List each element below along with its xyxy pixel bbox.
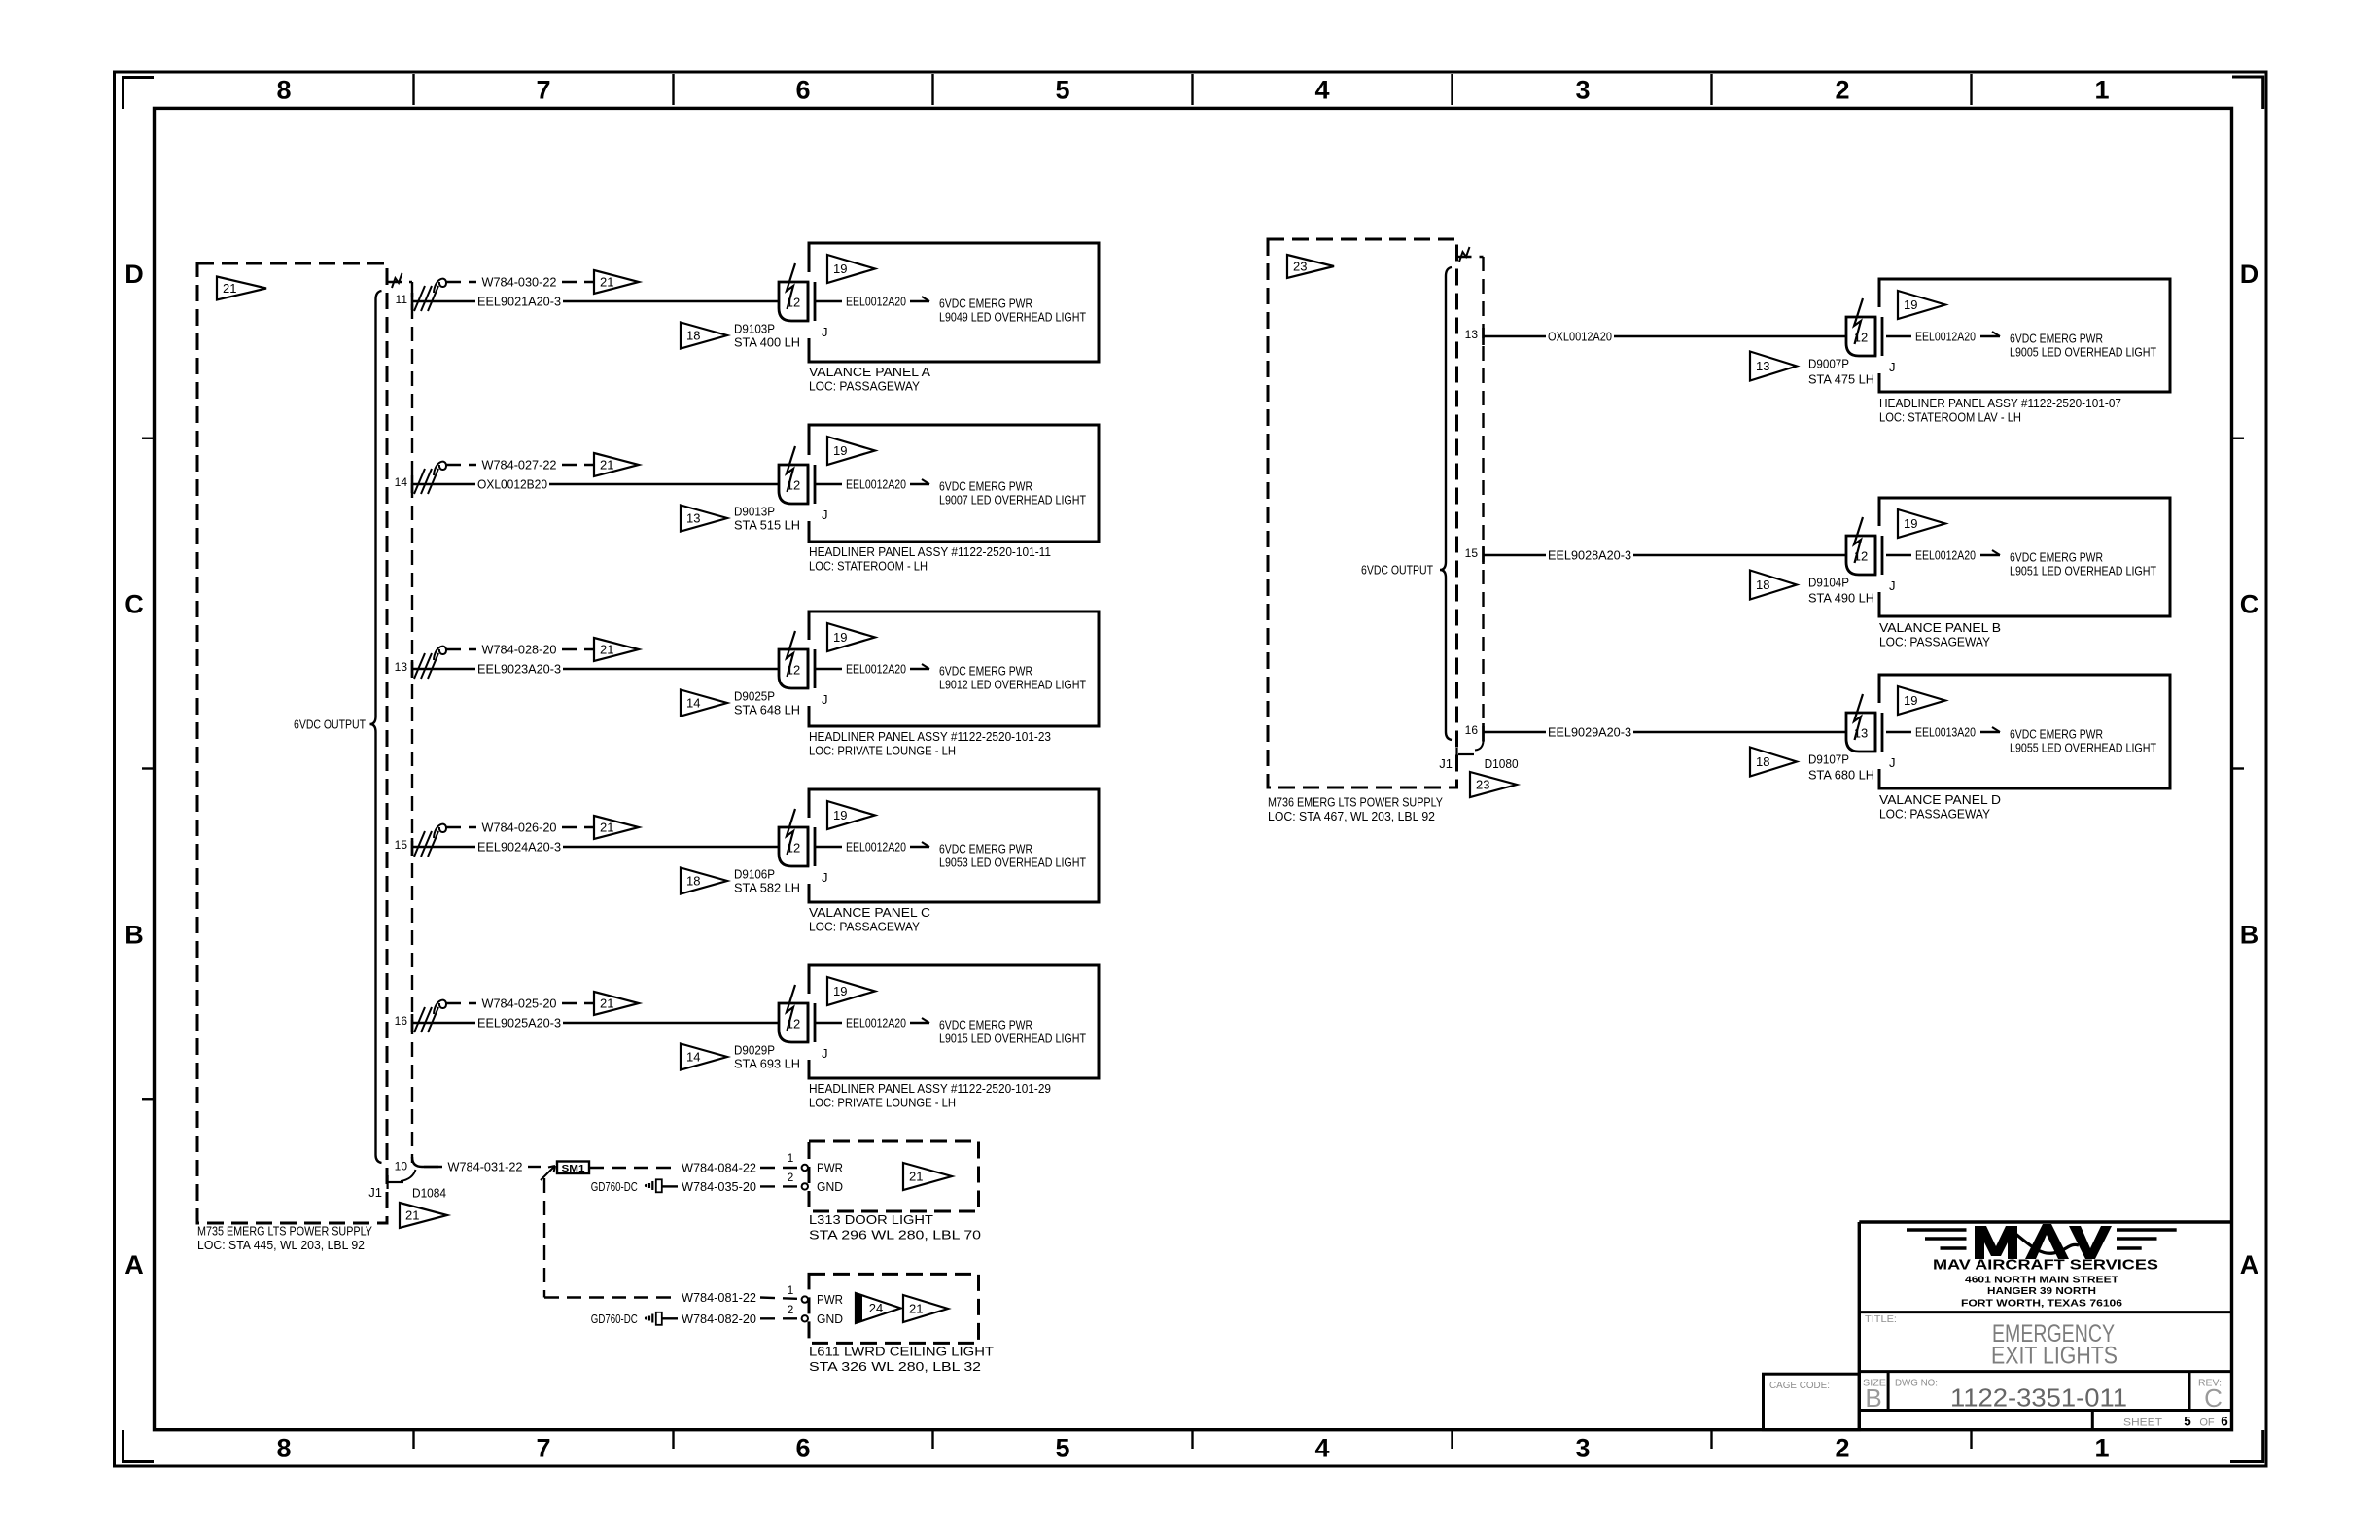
- zone letters left (D C B A): [124, 260, 144, 1279]
- svg-text:6: 6: [795, 1434, 810, 1463]
- svg-text:GD760-DC: GD760-DC: [591, 1312, 638, 1326]
- svg-text:STA 326 WL 280, LBL 32: STA 326 WL 280, LBL 32: [809, 1359, 981, 1374]
- svg-text:J: J: [1889, 755, 1896, 770]
- svg-text:12: 12: [787, 663, 800, 678]
- 6VDC OUTPUT label (M735): [294, 717, 366, 732]
- svg-text:J: J: [1889, 360, 1896, 374]
- net label 6VDC EMERG PWR / L9015: [939, 1018, 1086, 1046]
- svg-text:12: 12: [1854, 331, 1868, 345]
- D1080 label: [1485, 756, 1519, 771]
- connector D9106P (12): [779, 809, 828, 885]
- svg-text:21: 21: [909, 1302, 923, 1316]
- size cell: [1863, 1372, 1888, 1413]
- shield pigtail pin 11: [414, 279, 446, 311]
- svg-text:18: 18: [1756, 577, 1769, 592]
- svg-text:10: 10: [395, 1160, 408, 1173]
- svg-text:LOC: PASSAGEWAY: LOC: PASSAGEWAY: [1879, 635, 1990, 649]
- caption HEADLINER PANEL ASSY #1122-2520-101-23: [809, 729, 1051, 758]
- svg-text:SM1: SM1: [562, 1164, 586, 1174]
- svg-text:LOC: STATEROOM - LH: LOC: STATEROOM - LH: [809, 559, 927, 574]
- wire EEL0012A20 inside L9049: [815, 295, 929, 309]
- drawing title EMERGENCY EXIT LIGHTS: [1991, 1320, 2117, 1370]
- svg-text:J: J: [822, 325, 828, 339]
- svg-text:2: 2: [787, 1171, 794, 1184]
- net label 6VDC EMERG PWR / L9007: [939, 479, 1086, 507]
- svg-text:3: 3: [1575, 1434, 1590, 1463]
- corner tick top-right: [2232, 77, 2263, 109]
- shield drain wire W784-025-20: [446, 997, 594, 1011]
- svg-text:14: 14: [686, 696, 700, 711]
- svg-text:1: 1: [787, 1283, 794, 1297]
- svg-text:J: J: [822, 870, 828, 885]
- reference D9029P STA 693 LH: [734, 1043, 800, 1071]
- reference D9107P STA 680 LH: [1808, 752, 1874, 783]
- light unit box L9053 VALANCE PANEL C: [809, 789, 1099, 902]
- wire W784-031-22 (pin 10): [424, 1160, 541, 1174]
- svg-text:21: 21: [600, 275, 613, 290]
- svg-text:LOC: PASSAGEWAY: LOC: PASSAGEWAY: [809, 379, 920, 394]
- pin bus corner to pin 10 (M735): [412, 1157, 442, 1167]
- net label 6VDC EMERG PWR / L9053: [939, 842, 1086, 870]
- svg-text:EEL9028A20-3: EEL9028A20-3: [1548, 548, 1631, 563]
- connector D9104P (15): [1846, 517, 1896, 593]
- svg-text:23: 23: [1293, 260, 1307, 274]
- output brace (M735): [370, 291, 382, 1163]
- svg-text:W784-027-22: W784-027-22: [482, 458, 557, 472]
- svg-text:B: B: [2240, 920, 2259, 949]
- shield drain wire W784-026-20: [446, 821, 594, 835]
- svg-text:L611 LWRD CEILING LIGHT: L611 LWRD CEILING LIGHT: [809, 1345, 994, 1359]
- L611 pin 2: [787, 1303, 808, 1322]
- light unit box L9049 VALANCE PANEL A: [809, 243, 1099, 362]
- svg-text:L9012 LED OVERHEAD LIGHT: L9012 LED OVERHEAD LIGHT: [939, 678, 1086, 692]
- svg-text:J1: J1: [368, 1185, 382, 1200]
- svg-text:L313 DOOR LIGHT: L313 DOOR LIGHT: [809, 1212, 933, 1227]
- svg-text:D9106P: D9106P: [734, 867, 775, 882]
- flag 21 in L313: [903, 1163, 952, 1190]
- reference D9007P STA 475 LH: [1808, 357, 1874, 387]
- flag 21 on W784-025-20: [594, 992, 639, 1015]
- svg-text:D9104P: D9104P: [1808, 576, 1849, 590]
- svg-text:11: 11: [396, 293, 408, 306]
- ground GD760-DC (L313): [591, 1179, 662, 1194]
- svg-text:D9103P: D9103P: [734, 322, 775, 336]
- svg-text:STA 296 WL 280, LBL 70: STA 296 WL 280, LBL 70: [809, 1228, 981, 1242]
- connector J1 stub with break squiggle (M736): [1457, 247, 1484, 262]
- L611 LWRD CEILING LIGHT dashed box: [809, 1274, 979, 1343]
- svg-text:23: 23: [1476, 778, 1489, 792]
- svg-text:C: C: [124, 590, 144, 619]
- svg-text:W784-081-22: W784-081-22: [682, 1290, 756, 1305]
- svg-text:5: 5: [1055, 76, 1069, 105]
- wire W784-035-20 (gnd to L313): [662, 1179, 801, 1194]
- svg-text:D9025P: D9025P: [734, 689, 775, 704]
- flag 18 D9103P: [681, 323, 727, 349]
- svg-text:13: 13: [686, 511, 700, 526]
- pin 13 tick and number (J1 M735): [395, 660, 412, 678]
- svg-text:21: 21: [909, 1170, 923, 1184]
- svg-text:STA 515 LH: STA 515 LH: [734, 518, 800, 533]
- svg-text:OXL0012B20: OXL0012B20: [477, 477, 547, 492]
- svg-text:CAGE CODE:: CAGE CODE:: [1769, 1380, 1830, 1391]
- svg-text:EEL9023A20-3: EEL9023A20-3: [477, 662, 561, 677]
- wire EEL0012A20 inside L9007: [815, 477, 929, 492]
- shield pigtail pin 16: [414, 1000, 446, 1032]
- shield pigtail pin 13: [414, 647, 446, 679]
- svg-text:12: 12: [787, 841, 800, 856]
- MAV logo speed lines right: [2117, 1230, 2177, 1248]
- flag 21 below J1 (M735): [400, 1203, 447, 1228]
- caption VALANCE PANEL A: [809, 365, 930, 394]
- svg-text:EEL9029A20-3: EEL9029A20-3: [1548, 725, 1631, 740]
- connector J1 stub with break squiggle (M735): [387, 273, 412, 288]
- corner tick top-left: [123, 78, 155, 110]
- svg-text:EEL9025A20-3: EEL9025A20-3: [477, 1016, 561, 1031]
- svg-text:W784-035-20: W784-035-20: [682, 1179, 756, 1194]
- wire EEL0012A20 inside L9053: [815, 840, 929, 855]
- wire EEL9021A20-3 pin 11: [412, 295, 779, 309]
- net label 6VDC EMERG PWR / L9049: [939, 297, 1086, 325]
- shield drain wire W784-028-20: [446, 643, 594, 657]
- svg-text:PWR: PWR: [817, 1161, 843, 1175]
- flag 21 on W784-030-22: [594, 270, 639, 294]
- svg-text:L9005 LED OVERHEAD LIGHT: L9005 LED OVERHEAD LIGHT: [2010, 345, 2156, 360]
- title block outline: [1859, 1222, 2231, 1430]
- branch wire SM1 down to L611: [544, 1178, 678, 1298]
- D1084 backshell arc and label: [401, 1170, 446, 1201]
- L611 pin 1: [787, 1283, 808, 1303]
- svg-text:15: 15: [1465, 546, 1479, 560]
- svg-text:W784-084-22: W784-084-22: [682, 1161, 756, 1175]
- shield pigtail pin 15: [414, 824, 446, 857]
- J1 tick and label (M736): [1439, 748, 1474, 771]
- svg-text:21: 21: [600, 821, 613, 835]
- L313 pin 1: [787, 1151, 808, 1171]
- M735 caption: [197, 1224, 372, 1253]
- L313 caption: [809, 1212, 981, 1242]
- svg-text:13: 13: [1756, 359, 1769, 373]
- svg-text:STA 648 LH: STA 648 LH: [734, 703, 800, 717]
- svg-text:STA 490 LH: STA 490 LH: [1808, 591, 1874, 606]
- flag 13 D9007P: [1750, 352, 1797, 381]
- svg-text:A: A: [2240, 1250, 2259, 1279]
- svg-text:VALANCE PANEL A: VALANCE PANEL A: [809, 365, 930, 379]
- svg-text:24: 24: [869, 1301, 883, 1315]
- flag 19 in L9053: [827, 801, 875, 829]
- shield drain wire W784-030-22: [446, 275, 594, 290]
- svg-text:5: 5: [2184, 1415, 2191, 1429]
- svg-text:1: 1: [2094, 76, 2109, 105]
- svg-text:16: 16: [1465, 723, 1479, 737]
- svg-text:W784-031-22: W784-031-22: [448, 1160, 523, 1174]
- svg-text:EEL0012A20: EEL0012A20: [846, 840, 906, 855]
- wire EEL0012A20 inside L9051: [1886, 548, 2000, 563]
- light unit box L9007 HEADLINER PANEL ASSY #1122-2520-101-11: [809, 425, 1099, 542]
- svg-text:EEL9024A20-3: EEL9024A20-3: [477, 840, 561, 855]
- svg-text:EEL0012A20: EEL0012A20: [846, 477, 906, 492]
- L313 PWR GND labels: [817, 1161, 843, 1195]
- svg-text:4: 4: [1314, 76, 1329, 105]
- zone ticks bottom edge: [414, 1431, 1972, 1449]
- title divider 1: [1859, 1311, 2231, 1313]
- shield pigtail pin 14: [414, 462, 446, 494]
- svg-text:EEL9021A20-3: EEL9021A20-3: [477, 295, 561, 309]
- svg-text:HEADLINER PANEL ASSY #1122-252: HEADLINER PANEL ASSY #1122-2520-101-07: [1879, 396, 2121, 410]
- rev cell: [2189, 1372, 2222, 1413]
- corner tick bottom-left: [123, 1430, 155, 1462]
- svg-text:12: 12: [787, 1017, 800, 1032]
- flag 21 inside M735: [217, 277, 266, 300]
- svg-text:B: B: [1865, 1383, 1881, 1413]
- svg-text:L9015 LED OVERHEAD LIGHT: L9015 LED OVERHEAD LIGHT: [939, 1032, 1086, 1046]
- power supply M735 dashed enclosure: [197, 263, 387, 1223]
- svg-text:SHEET: SHEET: [2123, 1417, 2162, 1429]
- svg-text:12: 12: [1854, 549, 1868, 564]
- svg-text:D1084: D1084: [412, 1186, 446, 1201]
- svg-text:7: 7: [536, 76, 550, 105]
- caption HEADLINER PANEL ASSY #1122-2520-101-29: [809, 1081, 1051, 1110]
- flag 21 on W784-026-20: [594, 816, 639, 839]
- inner border frame: [155, 108, 2232, 1429]
- sheet row: [2092, 1411, 2228, 1430]
- svg-text:TITLE:: TITLE:: [1865, 1313, 1897, 1325]
- wire EEL9029A20-3 pin 16: [1484, 725, 1847, 740]
- svg-text:19: 19: [1904, 693, 1917, 708]
- svg-text:STA 400 LH: STA 400 LH: [734, 335, 800, 350]
- flag 19 in L9007: [827, 437, 875, 465]
- svg-text:2: 2: [787, 1303, 794, 1316]
- connector D9025P (12): [779, 631, 828, 707]
- svg-text:PWR: PWR: [817, 1292, 843, 1307]
- svg-text:J: J: [822, 507, 828, 522]
- MAV logo letters: [1975, 1224, 2112, 1259]
- connector D9103P (12): [779, 263, 828, 339]
- svg-text:W784-082-20: W784-082-20: [682, 1312, 756, 1326]
- TITLE: label: [1865, 1313, 1897, 1325]
- svg-text:14: 14: [395, 475, 408, 489]
- bus tail below pin 16: [1475, 732, 1484, 751]
- svg-text:GND: GND: [817, 1312, 843, 1326]
- svg-text:6: 6: [2221, 1415, 2228, 1429]
- net label 6VDC EMERG PWR / L9055: [2010, 727, 2156, 755]
- pin 16 tick and number (J1 M736): [1465, 723, 1484, 741]
- L611 PWR GND labels: [817, 1292, 843, 1326]
- svg-text:6VDC EMERG PWR: 6VDC EMERG PWR: [939, 1018, 1032, 1032]
- flag 19 in L9005: [1898, 291, 1945, 319]
- flag 18 D9107P: [1750, 748, 1797, 777]
- wire EEL9024A20-3 pin 15: [412, 840, 779, 855]
- connector D9013P (12): [779, 446, 828, 522]
- svg-text:16: 16: [395, 1014, 408, 1028]
- svg-text:EEL0012A20: EEL0012A20: [1915, 548, 1976, 563]
- svg-text:14: 14: [686, 1050, 700, 1065]
- svg-text:LOC: PASSAGEWAY: LOC: PASSAGEWAY: [809, 920, 920, 934]
- caption VALANCE PANEL B: [1879, 620, 2001, 649]
- reference D9025P STA 648 LH: [734, 689, 800, 717]
- zone ticks left edge: [142, 438, 155, 1100]
- svg-text:6VDC OUTPUT: 6VDC OUTPUT: [294, 717, 366, 732]
- svg-text:18: 18: [686, 329, 700, 343]
- wire EEL0013A20 inside L9055: [1886, 725, 2000, 740]
- splice SM1: [557, 1162, 589, 1174]
- svg-text:GD760-DC: GD760-DC: [591, 1179, 638, 1194]
- title divider 2: [1859, 1370, 2231, 1373]
- svg-text:6VDC EMERG PWR: 6VDC EMERG PWR: [2010, 332, 2103, 346]
- svg-text:19: 19: [1904, 297, 1917, 312]
- flag 23 inside M736: [1287, 255, 1334, 278]
- svg-text:D9007P: D9007P: [1808, 357, 1849, 371]
- flag 19 in L9012: [827, 623, 875, 651]
- svg-text:LOC: PRIVATE LOUNGE - LH: LOC: PRIVATE LOUNGE - LH: [809, 1096, 956, 1110]
- connector J1 pin bus line (M736): [1482, 257, 1484, 732]
- svg-text:19: 19: [833, 630, 847, 645]
- zone ticks right edge: [2232, 438, 2245, 769]
- svg-text:19: 19: [833, 808, 847, 822]
- svg-text:LOC: PASSAGEWAY: LOC: PASSAGEWAY: [1879, 807, 1990, 822]
- svg-text:W784-028-20: W784-028-20: [482, 643, 557, 657]
- svg-text:19: 19: [1904, 516, 1917, 531]
- svg-text:W784-025-20: W784-025-20: [482, 997, 557, 1011]
- company address: [1961, 1276, 2123, 1310]
- net label 6VDC EMERG PWR / L9005: [2010, 332, 2156, 360]
- svg-text:LOC: STATEROOM LAV - LH: LOC: STATEROOM LAV - LH: [1879, 410, 2021, 425]
- svg-text:C: C: [2240, 590, 2259, 619]
- reference D9106P STA 582 LH: [734, 867, 800, 895]
- wire EEL0012A20 inside L9012: [815, 662, 929, 677]
- svg-text:L9049 LED OVERHEAD LIGHT: L9049 LED OVERHEAD LIGHT: [939, 310, 1086, 325]
- connector D9107P (16): [1846, 694, 1896, 770]
- svg-text:OXL0012A20: OXL0012A20: [1548, 330, 1612, 344]
- caption HEADLINER PANEL ASSY #1122-2520-101-11: [809, 544, 1051, 574]
- svg-text:HEADLINER PANEL ASSY #1122-252: HEADLINER PANEL ASSY #1122-2520-101-29: [809, 1081, 1051, 1096]
- reference D9013P STA 515 LH: [734, 505, 800, 533]
- svg-text:LOC: STA 445, WL 203, LBL 92: LOC: STA 445, WL 203, LBL 92: [197, 1238, 365, 1252]
- svg-text:EEL0012A20: EEL0012A20: [846, 295, 906, 309]
- svg-text:4: 4: [1314, 1434, 1329, 1463]
- light unit box L9055 VALANCE PANEL D: [1879, 675, 2170, 788]
- svg-text:HEADLINER PANEL ASSY #1122-252: HEADLINER PANEL ASSY #1122-2520-101-11: [809, 544, 1051, 559]
- svg-text:21: 21: [223, 281, 236, 296]
- svg-text:HEADLINER PANEL ASSY #1122-252: HEADLINER PANEL ASSY #1122-2520-101-23: [809, 729, 1051, 744]
- svg-text:STA 680 LH: STA 680 LH: [1808, 768, 1874, 783]
- svg-text:6VDC EMERG PWR: 6VDC EMERG PWR: [939, 664, 1032, 679]
- svg-text:STA 693 LH: STA 693 LH: [734, 1057, 800, 1071]
- flag 18 D9106P: [681, 868, 727, 894]
- svg-text:EEL0012A20: EEL0012A20: [846, 662, 906, 677]
- svg-text:VALANCE PANEL B: VALANCE PANEL B: [1879, 620, 2001, 635]
- svg-text:STA 475 LH: STA 475 LH: [1808, 372, 1874, 387]
- svg-text:EEL0013A20: EEL0013A20: [1915, 725, 1976, 740]
- svg-text:13: 13: [1854, 726, 1868, 741]
- svg-text:L9055 LED OVERHEAD LIGHT: L9055 LED OVERHEAD LIGHT: [2010, 741, 2156, 755]
- wire OXL0012B20 pin 14: [412, 477, 779, 492]
- pin 14 tick and number (J1 M735): [395, 475, 412, 493]
- flag 21 on W784-027-22: [594, 453, 639, 476]
- svg-text:STA 582 LH: STA 582 LH: [734, 881, 800, 895]
- L611 caption: [809, 1345, 994, 1374]
- svg-text:DWG NO:: DWG NO:: [1895, 1378, 1938, 1389]
- svg-text:3: 3: [1575, 76, 1590, 105]
- net label 6VDC EMERG PWR / L9051: [2010, 550, 2156, 578]
- reference D9104P STA 490 LH: [1808, 576, 1874, 606]
- svg-text:6VDC EMERG PWR: 6VDC EMERG PWR: [2010, 550, 2103, 565]
- svg-text:B: B: [124, 920, 144, 949]
- L313 pin 2: [787, 1171, 808, 1190]
- svg-text:21: 21: [600, 643, 613, 657]
- svg-text:6VDC EMERG PWR: 6VDC EMERG PWR: [939, 479, 1032, 494]
- svg-text:6VDC EMERG PWR: 6VDC EMERG PWR: [2010, 727, 2103, 742]
- pin 10 number (J1 M735): [395, 1160, 408, 1173]
- svg-text:1: 1: [2094, 1434, 2109, 1463]
- flag 24 filled in L611: [856, 1293, 901, 1323]
- svg-text:2: 2: [1835, 1434, 1849, 1463]
- svg-text:J: J: [822, 692, 828, 707]
- svg-text:6VDC OUTPUT: 6VDC OUTPUT: [1361, 563, 1433, 577]
- svg-text:18: 18: [1756, 754, 1769, 769]
- company name MAV AIRCRAFT SERVICES: [1933, 1257, 2158, 1274]
- svg-text:13: 13: [395, 660, 408, 674]
- wire EEL9025A20-3 pin 16: [412, 1016, 779, 1031]
- svg-text:6VDC EMERG PWR: 6VDC EMERG PWR: [939, 297, 1032, 311]
- flag 19 in L9015: [827, 977, 875, 1005]
- svg-text:21: 21: [600, 458, 613, 472]
- svg-text:L9051 LED OVERHEAD LIGHT: L9051 LED OVERHEAD LIGHT: [2010, 564, 2156, 578]
- wire EEL9028A20-3 pin 15: [1484, 548, 1847, 563]
- light unit box L9015 HEADLINER PANEL ASSY #1122-2520-101-29: [809, 965, 1099, 1078]
- connector J1 pin bus line (M735): [411, 282, 413, 1163]
- svg-text:19: 19: [833, 262, 847, 276]
- svg-text:EXIT LIGHTS: EXIT LIGHTS: [1991, 1343, 2117, 1370]
- wire W784-081-22 (to L611 PWR): [682, 1290, 801, 1305]
- svg-text:7: 7: [536, 1434, 550, 1463]
- flag 19 in L9055: [1898, 686, 1945, 715]
- connector D9029P (12): [779, 985, 828, 1061]
- M736 caption: [1268, 795, 1443, 824]
- pin 11 tick and number (J1 M735): [396, 293, 412, 310]
- svg-text:4601 NORTH MAIN STREET: 4601 NORTH MAIN STREET: [1965, 1276, 2118, 1286]
- svg-text:21: 21: [405, 1208, 419, 1223]
- flag 18 D9104P: [1750, 571, 1797, 600]
- svg-text:C: C: [2204, 1383, 2222, 1413]
- svg-text:VALANCE PANEL D: VALANCE PANEL D: [1879, 792, 2001, 807]
- svg-text:1: 1: [787, 1151, 794, 1165]
- zone letters right (D C B A): [2240, 260, 2259, 1279]
- svg-text:1122-3351-011: 1122-3351-011: [1950, 1383, 2127, 1413]
- wire W784-084-22 (SM1 to L313): [589, 1161, 801, 1175]
- svg-text:6VDC EMERG PWR: 6VDC EMERG PWR: [939, 842, 1032, 857]
- MAV logo speed lines left: [1907, 1230, 1967, 1248]
- svg-text:21: 21: [600, 997, 613, 1011]
- wire EEL9023A20-3 pin 13: [412, 662, 779, 677]
- svg-text:D9029P: D9029P: [734, 1043, 775, 1058]
- svg-text:VALANCE PANEL C: VALANCE PANEL C: [809, 905, 930, 920]
- reference D9103P STA 400 LH: [734, 322, 800, 350]
- light unit box L9012 HEADLINER PANEL ASSY #1122-2520-101-23: [809, 612, 1099, 726]
- svg-text:A: A: [124, 1250, 144, 1279]
- svg-text:L9007 LED OVERHEAD LIGHT: L9007 LED OVERHEAD LIGHT: [939, 493, 1086, 507]
- svg-text:2: 2: [1835, 76, 1849, 105]
- flag 13 D9013P: [681, 506, 727, 532]
- corner tick bottom-right: [2230, 1430, 2263, 1462]
- light unit box L9051 VALANCE PANEL B: [1879, 498, 2170, 616]
- svg-text:GND: GND: [817, 1179, 843, 1194]
- pin 15 tick and number (J1 M736): [1465, 546, 1484, 564]
- svg-text:19: 19: [833, 443, 847, 458]
- svg-text:W784-030-22: W784-030-22: [482, 275, 557, 290]
- svg-text:HANGER 39 NORTH: HANGER 39 NORTH: [1987, 1286, 2096, 1297]
- svg-text:J: J: [1889, 578, 1896, 593]
- ground GD760-DC (L611): [591, 1312, 662, 1326]
